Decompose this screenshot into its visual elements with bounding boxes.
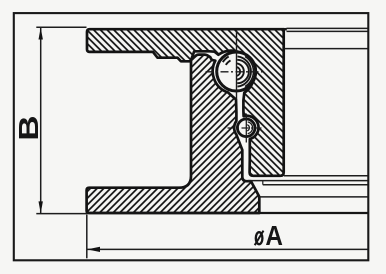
svg-text:A: A [265, 222, 283, 252]
svg-text:B: B [13, 115, 44, 140]
